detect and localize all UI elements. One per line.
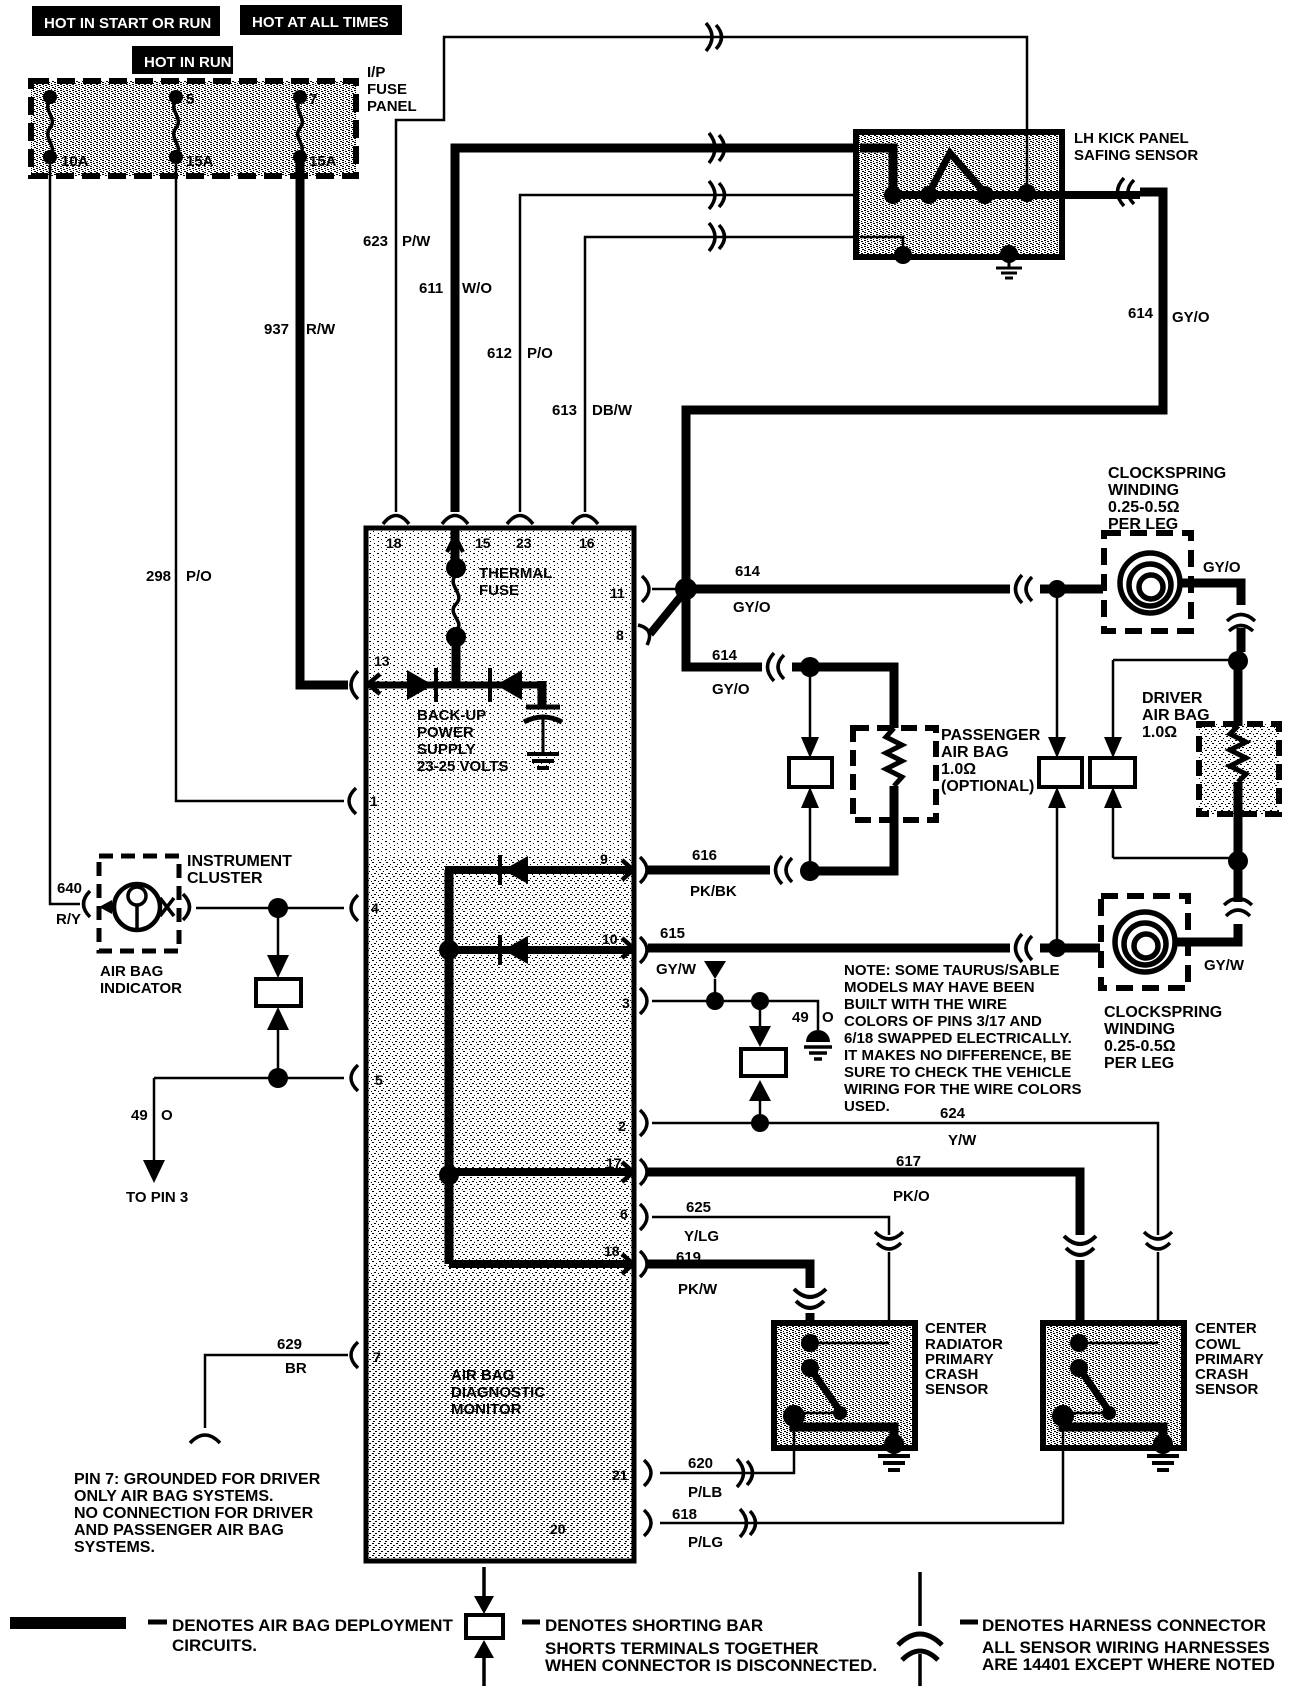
svg-text:PASSENGER: PASSENGER xyxy=(941,727,1041,744)
svg-text:7: 7 xyxy=(373,1349,381,1365)
svg-text:21: 21 xyxy=(612,1467,628,1483)
svg-text:P/W: P/W xyxy=(402,233,431,250)
svg-text:3: 3 xyxy=(622,995,630,1011)
svg-text:612: 612 xyxy=(487,345,512,362)
svg-text:1.0Ω: 1.0Ω xyxy=(1142,724,1177,741)
svg-text:R/Y: R/Y xyxy=(56,911,81,928)
svg-text:GY/O: GY/O xyxy=(712,681,750,698)
svg-text:GY/O: GY/O xyxy=(733,599,771,616)
svg-text:W/O: W/O xyxy=(462,280,492,297)
svg-text:FUSE: FUSE xyxy=(479,582,519,599)
svg-text:PIN 7: GROUNDED FOR DRIVER: PIN 7: GROUNDED FOR DRIVER xyxy=(74,1471,321,1488)
svg-text:9: 9 xyxy=(600,851,608,867)
svg-text:620: 620 xyxy=(688,1455,713,1472)
svg-text:614: 614 xyxy=(712,647,738,664)
svg-text:DIAGNOSTIC: DIAGNOSTIC xyxy=(451,1384,545,1401)
svg-text:23-25 VOLTS: 23-25 VOLTS xyxy=(417,758,508,775)
svg-text:13: 13 xyxy=(374,653,390,669)
svg-text:DENOTES SHORTING BAR: DENOTES SHORTING BAR xyxy=(545,1616,763,1635)
svg-text:NOTE: SOME TAURUS/SABLE: NOTE: SOME TAURUS/SABLE xyxy=(844,962,1060,979)
svg-text:20: 20 xyxy=(550,1521,566,1537)
svg-text:P/LB: P/LB xyxy=(688,1484,722,1501)
svg-text:1.0Ω: 1.0Ω xyxy=(941,761,976,778)
svg-text:HOT IN START OR RUN: HOT IN START OR RUN xyxy=(44,15,211,32)
svg-text:10A: 10A xyxy=(61,153,89,170)
svg-text:629: 629 xyxy=(277,1336,302,1353)
svg-text:Y/LG: Y/LG xyxy=(684,1228,719,1245)
svg-text:CLOCKSPRING: CLOCKSPRING xyxy=(1108,465,1226,482)
svg-text:1: 1 xyxy=(370,793,378,809)
svg-text:0.25-0.5Ω: 0.25-0.5Ω xyxy=(1108,499,1180,516)
svg-text:GY/W: GY/W xyxy=(1204,957,1245,974)
svg-text:PK/W: PK/W xyxy=(678,1281,718,1298)
svg-text:614: 614 xyxy=(1128,305,1154,322)
svg-text:11: 11 xyxy=(610,585,625,601)
svg-text:TO PIN 3: TO PIN 3 xyxy=(126,1189,188,1206)
svg-text:GY/O: GY/O xyxy=(1203,559,1241,576)
svg-text:613: 613 xyxy=(552,402,577,419)
svg-text:USED.: USED. xyxy=(844,1098,890,1115)
svg-text:2: 2 xyxy=(618,1118,626,1134)
svg-text:R/W: R/W xyxy=(306,321,336,338)
svg-text:PER LEG: PER LEG xyxy=(1108,516,1178,533)
svg-text:AIR BAG: AIR BAG xyxy=(100,963,163,980)
svg-text:WHEN CONNECTOR IS DISCONNECTED: WHEN CONNECTOR IS DISCONNECTED. xyxy=(545,1656,877,1675)
svg-text:617: 617 xyxy=(896,1153,921,1170)
svg-text:49: 49 xyxy=(131,1107,148,1124)
svg-text:BACK-UP: BACK-UP xyxy=(417,707,486,724)
svg-text:PK/O: PK/O xyxy=(893,1188,930,1205)
svg-text:5: 5 xyxy=(186,91,194,108)
svg-text:GY/W: GY/W xyxy=(656,961,697,978)
svg-text:I/P: I/P xyxy=(367,64,385,81)
svg-text:18: 18 xyxy=(604,1243,620,1259)
svg-text:5: 5 xyxy=(375,1072,383,1088)
svg-text:AIR BAG: AIR BAG xyxy=(941,744,1009,761)
svg-text:PANEL: PANEL xyxy=(367,98,417,115)
svg-text:0.25-0.5Ω: 0.25-0.5Ω xyxy=(1104,1038,1176,1055)
svg-text:6: 6 xyxy=(620,1206,628,1222)
svg-text:COLORS OF PINS 3/17 AND: COLORS OF PINS 3/17 AND xyxy=(844,1013,1042,1030)
svg-text:49: 49 xyxy=(792,1009,809,1026)
svg-text:DRIVER: DRIVER xyxy=(1142,690,1203,707)
svg-text:937: 937 xyxy=(264,321,289,338)
svg-text:LH KICK PANEL: LH KICK PANEL xyxy=(1074,130,1189,147)
svg-text:HOT IN RUN: HOT IN RUN xyxy=(144,54,232,71)
svg-text:625: 625 xyxy=(686,1199,711,1216)
svg-text:BR: BR xyxy=(285,1360,307,1377)
svg-text:SURE TO CHECK THE VEHICLE: SURE TO CHECK THE VEHICLE xyxy=(844,1064,1071,1081)
svg-text:618: 618 xyxy=(672,1506,697,1523)
svg-text:WIRING FOR THE WIRE COLORS: WIRING FOR THE WIRE COLORS xyxy=(844,1081,1082,1098)
svg-text:HOT AT ALL TIMES: HOT AT ALL TIMES xyxy=(252,14,389,31)
svg-text:624: 624 xyxy=(940,1105,966,1122)
svg-text:NO CONNECTION FOR DRIVER: NO CONNECTION FOR DRIVER xyxy=(74,1505,314,1522)
svg-text:P/O: P/O xyxy=(186,568,212,585)
svg-text:BUILT WITH THE WIRE: BUILT WITH THE WIRE xyxy=(844,996,1007,1013)
svg-text:Y/W: Y/W xyxy=(948,1132,977,1149)
svg-text:POWER: POWER xyxy=(417,724,474,741)
svg-text:7: 7 xyxy=(309,91,317,108)
svg-text:16: 16 xyxy=(579,535,595,551)
svg-text:SYSTEMS.: SYSTEMS. xyxy=(74,1539,155,1556)
svg-text:23: 23 xyxy=(516,535,532,551)
svg-text:4: 4 xyxy=(371,900,379,916)
svg-text:INDICATOR: INDICATOR xyxy=(100,980,182,997)
svg-text:O: O xyxy=(161,1107,173,1124)
svg-text:614: 614 xyxy=(735,563,761,580)
svg-text:8: 8 xyxy=(616,627,624,643)
svg-text:ONLY AIR BAG SYSTEMS.: ONLY AIR BAG SYSTEMS. xyxy=(74,1488,273,1505)
svg-text:INSTRUMENT: INSTRUMENT xyxy=(187,853,292,870)
svg-text:PK/BK: PK/BK xyxy=(690,883,737,900)
svg-text:15A: 15A xyxy=(309,153,337,170)
svg-text:6/18 SWAPPED ELECTRICALLY.: 6/18 SWAPPED ELECTRICALLY. xyxy=(844,1030,1072,1047)
svg-text:15: 15 xyxy=(475,535,491,551)
svg-text:SENSOR: SENSOR xyxy=(1195,1381,1259,1398)
svg-text:P/LG: P/LG xyxy=(688,1534,723,1551)
svg-text:18: 18 xyxy=(386,535,402,551)
svg-text:WINDING: WINDING xyxy=(1108,482,1179,499)
svg-text:FUSE: FUSE xyxy=(367,81,407,98)
svg-text:611: 611 xyxy=(419,280,443,297)
svg-text:CENTER: CENTER xyxy=(925,1320,987,1337)
svg-text:615: 615 xyxy=(660,925,685,942)
svg-text:10: 10 xyxy=(602,931,618,947)
svg-text:IT MAKES NO DIFFERENCE, BE: IT MAKES NO DIFFERENCE, BE xyxy=(844,1047,1072,1064)
svg-text:SUPPLY: SUPPLY xyxy=(417,741,476,758)
svg-text:17: 17 xyxy=(606,1155,622,1171)
svg-text:GY/O: GY/O xyxy=(1172,309,1210,326)
svg-text:SAFING SENSOR: SAFING SENSOR xyxy=(1074,147,1198,164)
svg-text:CLUSTER: CLUSTER xyxy=(187,870,263,887)
svg-text:CIRCUITS.: CIRCUITS. xyxy=(172,1636,257,1655)
svg-text:15A: 15A xyxy=(186,153,214,170)
svg-text:640: 640 xyxy=(57,880,82,897)
svg-text:DB/W: DB/W xyxy=(592,402,633,419)
svg-text:DENOTES AIR BAG DEPLOYMENT: DENOTES AIR BAG DEPLOYMENT xyxy=(172,1616,453,1635)
svg-text:(OPTIONAL): (OPTIONAL) xyxy=(941,778,1034,795)
svg-text:AND PASSENGER AIR BAG: AND PASSENGER AIR BAG xyxy=(74,1522,284,1539)
svg-text:WINDING: WINDING xyxy=(1104,1021,1175,1038)
svg-text:623: 623 xyxy=(363,233,388,250)
svg-text:P/O: P/O xyxy=(527,345,553,362)
svg-text:CENTER: CENTER xyxy=(1195,1320,1257,1337)
svg-text:O: O xyxy=(822,1009,834,1026)
svg-text:619: 619 xyxy=(676,1249,701,1266)
svg-text:THERMAL: THERMAL xyxy=(479,565,552,582)
svg-text:MODELS MAY HAVE BEEN: MODELS MAY HAVE BEEN xyxy=(844,979,1035,996)
svg-text:DENOTES HARNESS CONNECTOR: DENOTES HARNESS CONNECTOR xyxy=(982,1616,1266,1635)
svg-text:SENSOR: SENSOR xyxy=(925,1381,989,1398)
svg-text:MONITOR: MONITOR xyxy=(451,1401,522,1418)
svg-text:298: 298 xyxy=(146,568,171,585)
svg-text:PER LEG: PER LEG xyxy=(1104,1055,1174,1072)
svg-text:CLOCKSPRING: CLOCKSPRING xyxy=(1104,1004,1222,1021)
svg-text:ARE 14401 EXCEPT WHERE NOTED: ARE 14401 EXCEPT WHERE NOTED xyxy=(982,1655,1275,1674)
svg-text:616: 616 xyxy=(692,847,717,864)
svg-text:AIR BAG: AIR BAG xyxy=(451,1367,514,1384)
